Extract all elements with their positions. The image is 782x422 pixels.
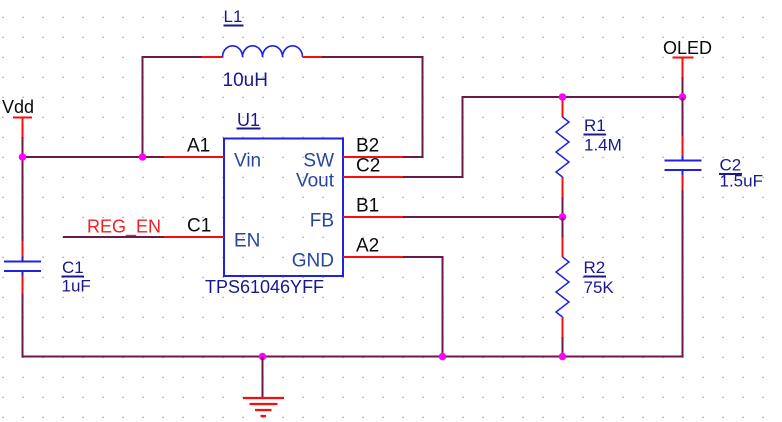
svg-text:A1: A1 [187, 136, 210, 157]
svg-text:Vdd: Vdd [2, 97, 34, 117]
junction R1 top at output rail [559, 93, 567, 101]
wire FB node to R2 [562, 217, 564, 237]
junction FB node [559, 213, 567, 221]
svg-text:C2: C2 [356, 156, 380, 177]
svg-text:SW: SW [303, 151, 334, 172]
junction at Vdd node [19, 153, 27, 161]
svg-text:GND: GND [292, 251, 334, 272]
svg-text:Vin: Vin [234, 151, 261, 172]
svg-text:R2: R2 [584, 258, 606, 277]
wire C2 bottom to ground rail [682, 190, 684, 357]
wire REG_EN to EN pin [63, 236, 164, 238]
port OLED [663, 38, 712, 77]
wire Vout to output rail [403, 97, 683, 177]
svg-text:L1: L1 [224, 7, 243, 26]
pin C1 (EN) [164, 216, 224, 238]
wire output rail down to C2 [682, 97, 684, 136]
svg-text:1.4M: 1.4M [584, 136, 622, 155]
wire GND pin down to ground rail [403, 257, 443, 357]
svg-text:75K: 75K [584, 278, 615, 297]
inductor L1 [202, 7, 322, 91]
wire Vin node up to inductor [143, 57, 203, 157]
wire FB to divider [403, 216, 563, 218]
wire C1 bottom to ground rail [22, 294, 24, 357]
pin A1 (Vin) [164, 136, 224, 158]
svg-text:A2: A2 [356, 236, 379, 257]
svg-text:FB: FB [310, 211, 334, 232]
svg-text:TPS61046YFF: TPS61046YFF [205, 277, 324, 297]
svg-text:B1: B1 [356, 196, 379, 217]
pin B1 (FB) [343, 196, 403, 218]
capacitor C1 [4, 241, 91, 296]
wire OLED to output rail [682, 77, 684, 97]
svg-text:REG_EN: REG_EN [87, 217, 161, 238]
wire R2 bottom to ground rail [562, 337, 564, 357]
wire inductor to SW pin [322, 57, 423, 157]
svg-text:C1: C1 [187, 216, 211, 237]
svg-text:B2: B2 [356, 136, 379, 157]
svg-text:OLED: OLED [663, 38, 712, 58]
svg-text:10uH: 10uH [223, 70, 268, 91]
junction ground rail at A2 wire [439, 353, 447, 361]
ground [243, 398, 284, 416]
capacitor C2 [665, 136, 763, 191]
wire R1 bottom to FB node [562, 197, 564, 217]
svg-text:Vout: Vout [296, 171, 335, 192]
svg-text:EN: EN [234, 231, 260, 252]
wire ground stem [262, 357, 264, 398]
svg-text:U1: U1 [237, 110, 260, 130]
wire Vdd horizontal to Vin pin [22, 156, 165, 158]
resistor R2 [556, 237, 614, 337]
pin A2 (GND) [343, 236, 403, 258]
pin C2 (Vout) [343, 156, 403, 178]
power symbol Vdd [2, 97, 34, 137]
svg-text:R1: R1 [584, 116, 606, 135]
resistor R1 [556, 97, 622, 197]
wire Vdd vertical to C1 [22, 137, 24, 241]
pin B2 (SW) [343, 136, 403, 158]
svg-text:1.5uF: 1.5uF [720, 172, 763, 191]
junction ground rail at R2 [559, 353, 567, 361]
svg-text:C1: C1 [62, 258, 84, 277]
junction OLED node [679, 93, 687, 101]
svg-text:1uF: 1uF [62, 277, 91, 296]
junction Vin node [139, 153, 147, 161]
op-amp U1 TPS61046YFF body [205, 110, 343, 297]
junction ground rail at GND symbol [259, 353, 267, 361]
wire ground rail [22, 356, 684, 358]
